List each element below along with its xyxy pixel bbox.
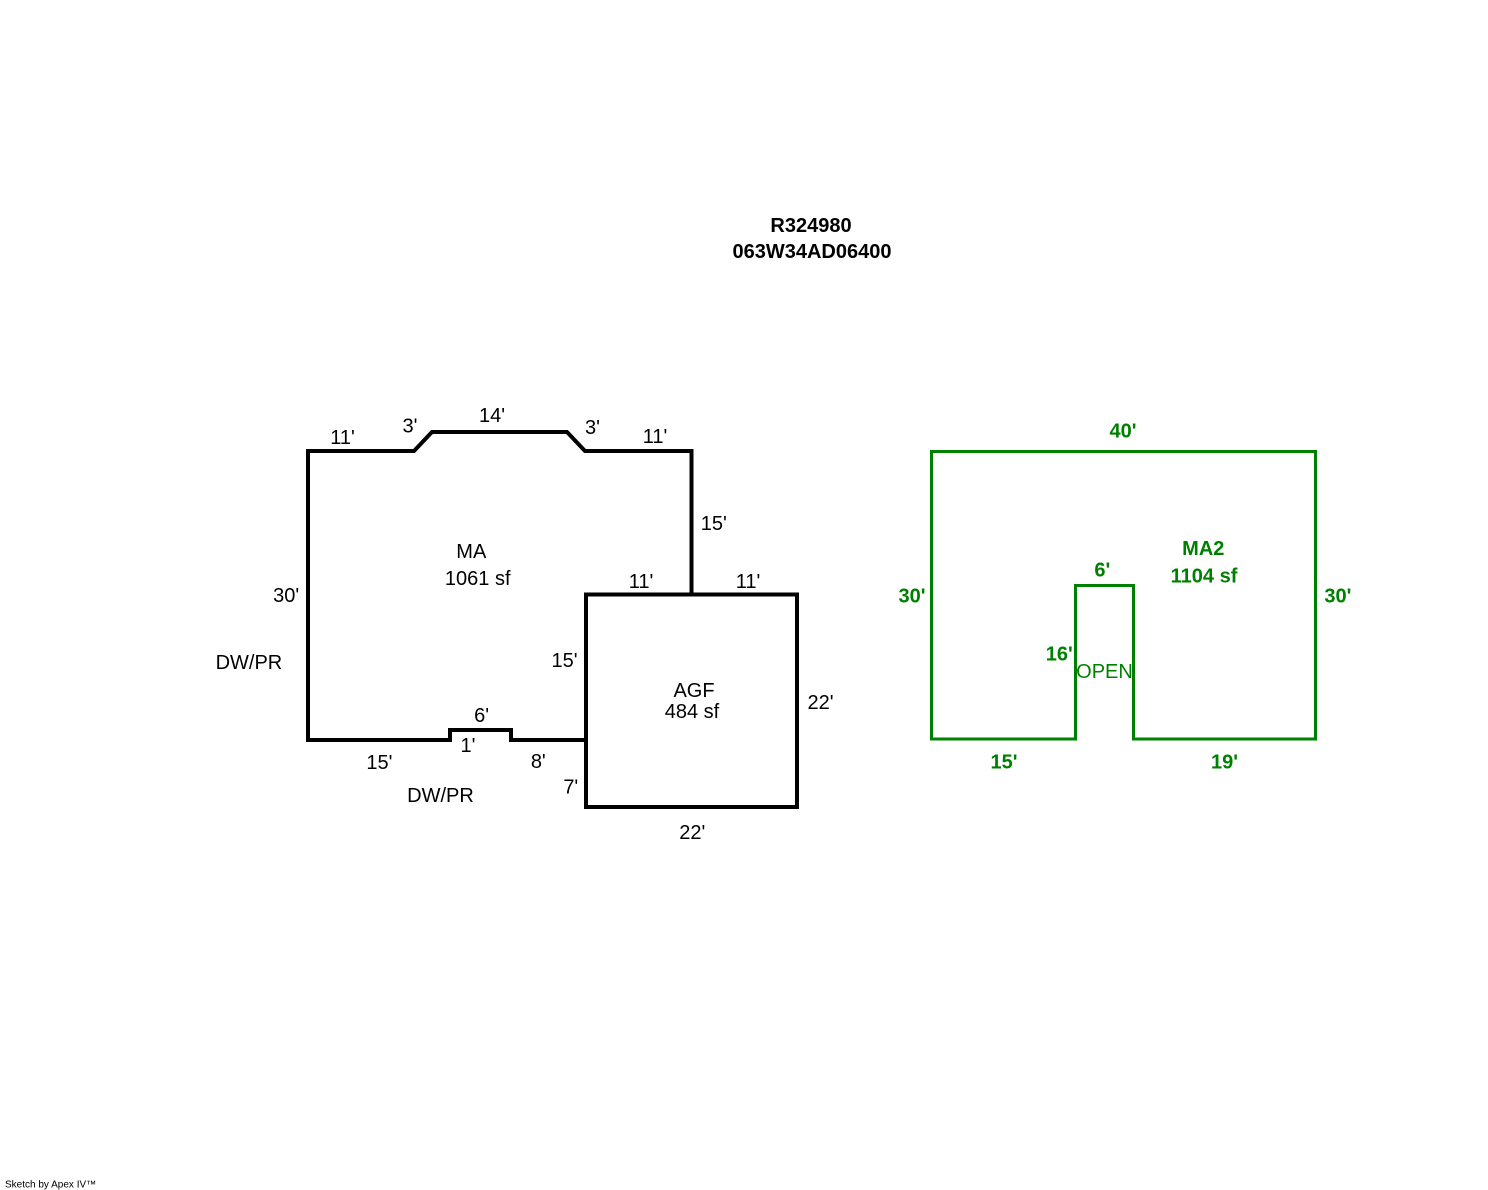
MA2 outline (green) (932, 452, 1316, 740)
svg-text:6': 6' (474, 705, 489, 727)
svg-text:11': 11' (330, 427, 355, 449)
svg-text:OPEN: OPEN (1076, 661, 1133, 683)
svg-text:3': 3' (585, 417, 600, 439)
svg-text:22': 22' (808, 692, 834, 714)
svg-text:8': 8' (531, 751, 546, 773)
svg-text:11': 11' (629, 571, 654, 593)
svg-text:15': 15' (552, 650, 578, 672)
svg-text:DW/PR: DW/PR (407, 785, 474, 807)
svg-text:1061 sf: 1061 sf (445, 568, 511, 590)
svg-text:3': 3' (403, 416, 418, 438)
svg-text:MA2: MA2 (1182, 538, 1224, 560)
svg-text:22': 22' (679, 822, 705, 844)
svg-text:MA: MA (456, 541, 487, 563)
svg-text:AGF: AGF (673, 680, 714, 702)
svg-text:DW/PR: DW/PR (216, 652, 283, 674)
svg-text:30': 30' (1324, 586, 1351, 608)
svg-text:1': 1' (461, 735, 476, 757)
svg-text:16': 16' (1046, 644, 1073, 666)
svg-text:14': 14' (479, 405, 505, 427)
svg-text:19': 19' (1211, 752, 1238, 774)
svg-text:11': 11' (643, 426, 668, 448)
svg-text:11': 11' (736, 571, 761, 593)
svg-text:40': 40' (1109, 421, 1136, 443)
svg-text:7': 7' (563, 777, 578, 799)
svg-text:15': 15' (701, 513, 727, 535)
svg-text:484 sf: 484 sf (665, 701, 720, 723)
svg-text:15': 15' (990, 752, 1017, 774)
svg-text:15': 15' (366, 752, 392, 774)
svg-text:063W34AD06400: 063W34AD06400 (733, 241, 892, 263)
svg-text:Sketch by Apex IV™: Sketch by Apex IV™ (5, 1180, 96, 1190)
svg-text:6': 6' (1094, 560, 1110, 582)
svg-text:30': 30' (273, 585, 299, 607)
AGF outline (black) (586, 595, 797, 808)
MA outline (black) (308, 432, 692, 740)
svg-text:30': 30' (898, 586, 925, 608)
svg-text:1104 sf: 1104 sf (1171, 566, 1238, 588)
svg-text:R324980: R324980 (770, 215, 851, 237)
